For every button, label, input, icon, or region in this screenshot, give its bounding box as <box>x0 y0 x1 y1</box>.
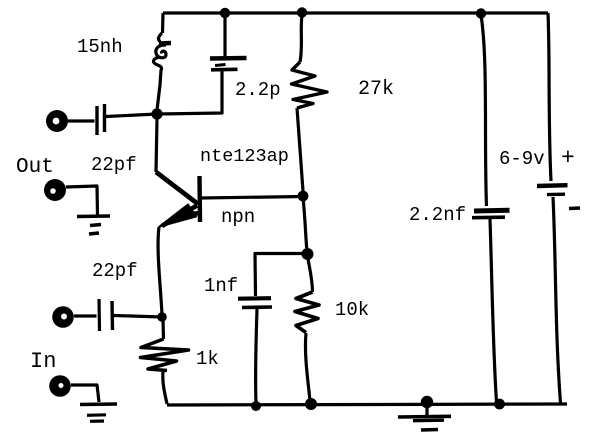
wire jack to ground <box>71 385 99 402</box>
capacitor C1 22pf (top) <box>95 106 98 135</box>
wire base to bias node <box>200 197 303 199</box>
capacitor C2 22pf (bottom) <box>97 299 101 331</box>
node C (1nf / 10k junction) <box>302 248 314 260</box>
connector J1 (top input jack) <box>46 110 68 132</box>
svg-text:6-9v: 6-9v <box>499 148 545 170</box>
wire node C down to 10k <box>308 259 313 292</box>
svg-text:Out: Out <box>16 156 54 179</box>
node E (10k at rail) <box>305 398 317 410</box>
node H (emitter / 22pf / 1k) <box>157 312 167 322</box>
svg-text:npn: npn <box>221 206 255 228</box>
ground (in jack) <box>80 402 117 406</box>
svg-text:22pf: 22pf <box>91 154 137 176</box>
node junction A (tank / collector) <box>151 108 162 119</box>
wire 22pf to emitter node <box>114 316 162 318</box>
wire out jack to ground <box>66 186 98 215</box>
node D (1nf at rail) <box>251 401 261 411</box>
wire 10k to rail <box>305 333 310 401</box>
svg-text:2.2nf: 2.2nf <box>409 204 466 226</box>
svg-text:1k: 1k <box>196 348 219 370</box>
wire jack to 22pf <box>68 119 95 122</box>
svg-text:1nf: 1nf <box>204 275 238 297</box>
wire bottom ground rail <box>167 404 567 405</box>
inductor L1 15nh <box>158 33 162 42</box>
svg-text:nte123ap: nte123ap <box>200 146 289 167</box>
wire top-left drop to inductor <box>161 13 165 33</box>
wire jack to 22pf bottom <box>74 314 97 317</box>
wire 1k to rail <box>163 371 167 404</box>
wire 22pf to junction A <box>106 114 157 117</box>
svg-text:2.2p: 2.2p <box>235 79 281 101</box>
svg-text:27k: 27k <box>358 78 394 101</box>
label - <box>569 206 580 210</box>
node top rail dot for 2.2p <box>220 8 230 18</box>
node F (2.2nf at rail) <box>494 399 505 410</box>
wire node H to 1k <box>161 319 165 339</box>
resistor R1 27k <box>300 15 302 62</box>
wire 2.2p bottom lead <box>158 71 222 114</box>
transistor Q1 nte123ap npn <box>156 172 198 204</box>
wire node B down to node C <box>303 198 307 252</box>
capacitor C4 2.2nf <box>474 208 510 214</box>
wire right side (top rail to battery +) <box>548 13 551 181</box>
wire 2.2nf bottom lead <box>490 219 497 402</box>
wire 1nf to ground rail <box>256 309 257 403</box>
wire battery - to rail <box>553 197 561 403</box>
ground (out jack, sketchy) <box>77 214 110 218</box>
connector J2 Out jack <box>44 179 66 201</box>
svg-text:10k: 10k <box>335 299 369 321</box>
connector J3 In jack (signal) <box>52 306 74 328</box>
wire 2.2nf top lead <box>481 15 487 206</box>
battery B1 6-9v <box>537 183 568 188</box>
svg-text:15nh: 15nh <box>77 36 123 58</box>
ground (main, on rail) <box>421 396 433 408</box>
resistor R2 10k <box>295 292 319 333</box>
node top rail dot for 2.2nf <box>476 8 486 18</box>
wire node C to 1nf <box>255 254 306 297</box>
node B (base bias junction) <box>298 191 309 202</box>
wire 2.2p top lead <box>223 15 226 56</box>
capacitor C3 1nf <box>238 296 271 301</box>
svg-text:In: In <box>30 349 56 374</box>
wire top rail <box>163 11 548 14</box>
svg-text:+: + <box>561 145 575 171</box>
connector J4 In jack (ground) <box>49 375 71 397</box>
node top rail dot for 27k <box>297 7 307 17</box>
wire junction A down to collector <box>156 119 157 172</box>
wire emitter down <box>158 227 162 315</box>
svg-text:22pf: 22pf <box>92 260 138 282</box>
capacitor 2.2p <box>210 56 247 61</box>
resistor R3 1k <box>141 339 189 371</box>
